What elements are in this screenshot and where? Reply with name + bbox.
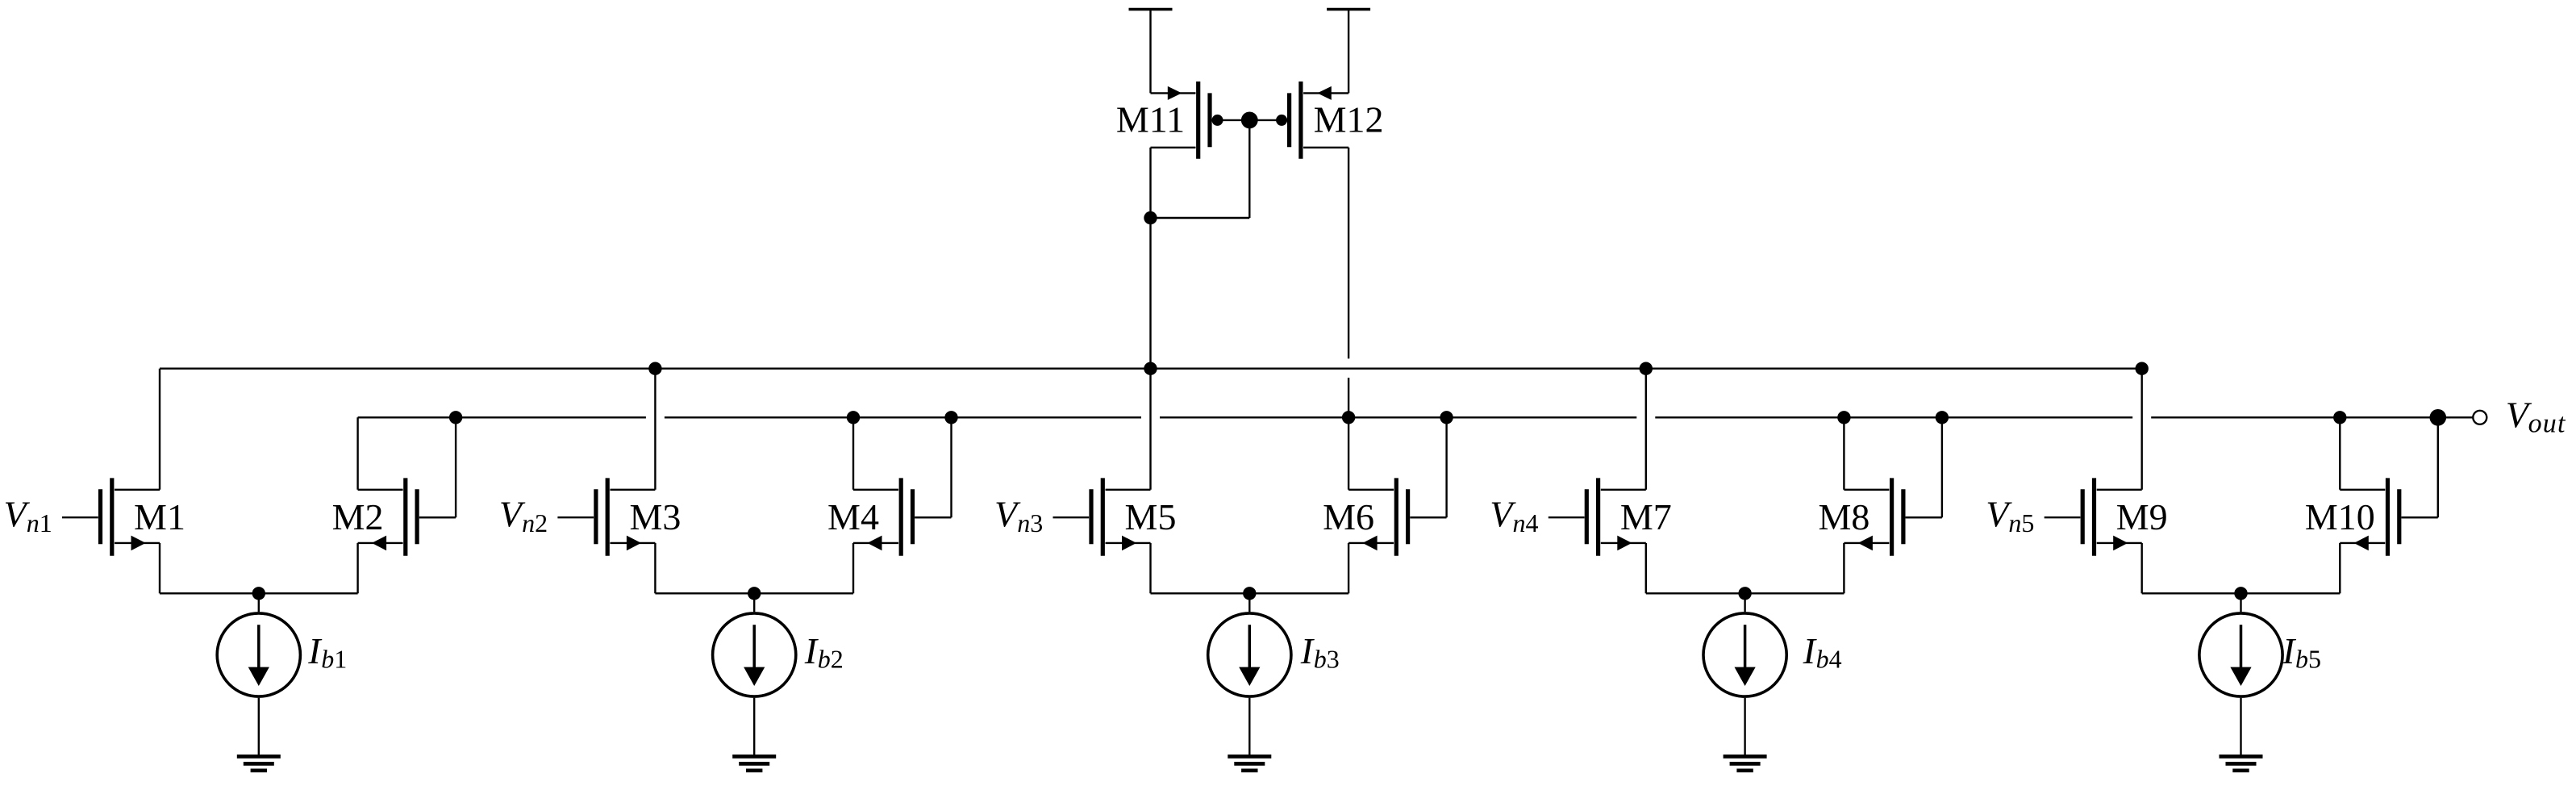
svg-text:M6: M6 [1323, 496, 1374, 537]
svg-text:b5: b5 [2295, 645, 2321, 674]
svg-text:n3: n3 [1017, 508, 1043, 537]
svg-text:M7: M7 [1620, 496, 1672, 537]
svg-text:b4: b4 [1816, 645, 1842, 674]
svg-text:n4: n4 [1513, 508, 1539, 537]
svg-text:b2: b2 [818, 645, 844, 674]
svg-text:M10: M10 [2305, 496, 2375, 537]
svg-text:M11: M11 [1116, 99, 1185, 140]
svg-text:b3: b3 [1314, 645, 1340, 674]
svg-text:M8: M8 [1818, 496, 1869, 537]
svg-text:M4: M4 [827, 496, 879, 537]
svg-text:M5: M5 [1125, 496, 1177, 537]
svg-text:M1: M1 [134, 496, 185, 537]
svg-text:M9: M9 [2116, 496, 2168, 537]
svg-text:out: out [2528, 409, 2566, 439]
svg-text:n2: n2 [522, 508, 548, 537]
svg-text:n5: n5 [2008, 508, 2034, 537]
svg-text:M3: M3 [629, 496, 681, 537]
svg-text:b1: b1 [321, 645, 347, 674]
svg-text:M2: M2 [332, 496, 384, 537]
svg-text:M12: M12 [1314, 99, 1384, 140]
svg-text:n1: n1 [27, 508, 52, 537]
